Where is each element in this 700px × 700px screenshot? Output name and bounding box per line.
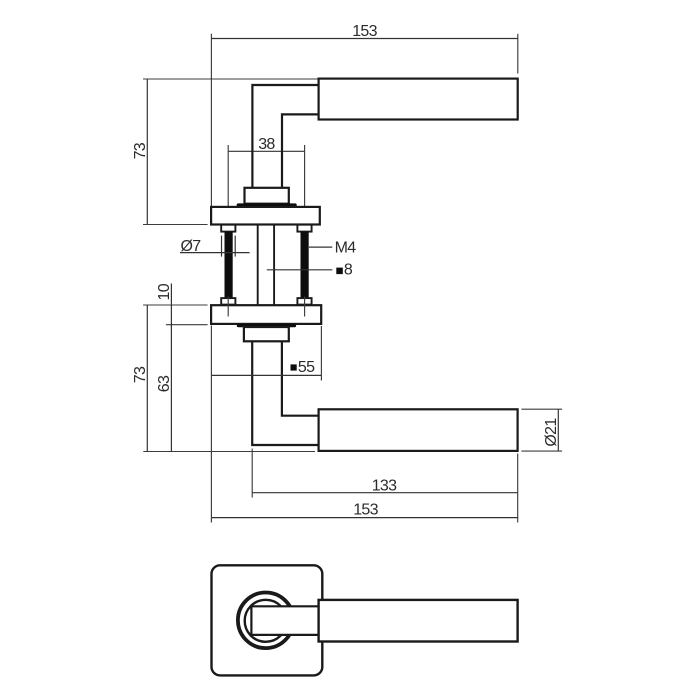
- bottom view: lower rosette plate: [211, 305, 321, 324]
- left bolt: threaded rod: [225, 232, 233, 299]
- label Ø7: left limit tick: [221, 236, 223, 257]
- bottom view handle: neck outer contour: [252, 341, 318, 445]
- label square 8: leader line: [267, 269, 333, 271]
- dimension 153 bottom: dimension line: [211, 517, 517, 519]
- dimension 38: left extension / bolt centerline: [227, 145, 229, 240]
- dimension 153 bottom: left extension line: [210, 326, 212, 523]
- bottom view: collar block: [244, 327, 289, 341]
- dimension 133: left extension line: [251, 449, 253, 498]
- label M4: leader line: [309, 246, 332, 248]
- spindle right edge: [273, 225, 275, 306]
- dimension 63/73: extension line at handle bottom: [143, 451, 315, 453]
- dimension 133/153: right extension line: [517, 454, 519, 523]
- lower rosette: left bolt centerline tail: [227, 297, 229, 317]
- right bolt: threaded rod: [301, 232, 309, 299]
- front view: handle neck: [251, 606, 318, 635]
- dimension 153 top: dimension line: [211, 38, 517, 40]
- label square 8: square symbol: [336, 268, 343, 275]
- dimension 133: dimension line: [252, 492, 518, 494]
- svg-text:10: 10: [156, 283, 173, 300]
- dimension 73 top: extension line at handle top: [143, 78, 318, 80]
- svg-text:8: 8: [344, 262, 353, 279]
- svg-text:Ø21: Ø21: [543, 418, 560, 447]
- front view: lever bar: [319, 600, 518, 642]
- dimension Ø21: bottom extension line: [521, 450, 562, 452]
- right bolt: hex head: [297, 225, 311, 232]
- bottom view handle: lever bar: [319, 409, 518, 451]
- left bolt: hex head: [221, 225, 235, 232]
- top view: upper rosette plate: [211, 207, 320, 225]
- label Ø7: right limit tick: [234, 236, 236, 257]
- bottom view handle: neck inner contour: [282, 341, 319, 415]
- svg-text:73: 73: [132, 142, 149, 159]
- front view: square rosette: [212, 565, 323, 675]
- dimension 10: extension line at rosette top: [143, 304, 208, 306]
- svg-text:153: 153: [352, 23, 377, 40]
- right bolt: nut: [297, 298, 311, 305]
- bottom view: bearing ring (black band): [237, 324, 296, 328]
- dimension 55: right extension line: [320, 326, 322, 381]
- dimension 10: extension line at rosette bottom: [166, 324, 208, 326]
- top view handle: collar block: [245, 188, 289, 204]
- svg-text:133: 133: [372, 478, 397, 495]
- svg-text:63: 63: [156, 375, 173, 392]
- dimension 73 bottom: dimension line: [146, 305, 148, 452]
- front view: outer ring: [238, 593, 294, 649]
- top view handle: neck outer contour: [252, 85, 318, 188]
- svg-text:55: 55: [298, 359, 315, 376]
- svg-text:73: 73: [132, 366, 149, 383]
- svg-text:38: 38: [258, 136, 275, 153]
- dimension 153 top: right extension line: [517, 34, 519, 74]
- label square 55: square symbol: [291, 364, 297, 370]
- dimension 153 top: left extension line: [210, 34, 212, 207]
- dimension 38: dimension line: [228, 150, 304, 152]
- spindle left edge: [257, 225, 259, 306]
- dimension 55: dimension line: [211, 374, 321, 376]
- dimension Ø21: dimension line: [557, 409, 559, 451]
- svg-text:153: 153: [353, 502, 378, 519]
- top view handle: bearing ring (black band): [237, 203, 297, 207]
- dimension Ø21: top extension line: [521, 408, 562, 410]
- left bolt: nut: [221, 298, 235, 305]
- dimension 63: dimension line: [170, 325, 172, 452]
- lower rosette: right bolt centerline tail: [304, 297, 306, 317]
- dimension 73 top: dimension line: [146, 79, 148, 225]
- label Ø7: underline leader: [180, 252, 250, 254]
- svg-text:M4: M4: [335, 239, 357, 256]
- front view: inner circle: [245, 600, 287, 642]
- top view handle: lever bar: [319, 79, 518, 120]
- top view handle: neck inner contour: [282, 114, 319, 187]
- dimension 38: right extension / bolt centerline: [304, 145, 306, 240]
- dimension 73 top: extension line at rosette bottom: [143, 224, 208, 226]
- dimension 10: dimension line: [170, 284, 172, 327]
